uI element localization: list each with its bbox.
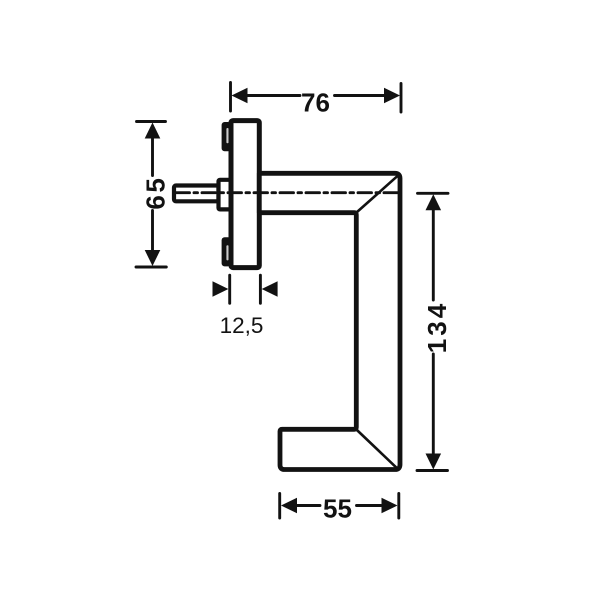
svg-text:65: 65: [141, 176, 171, 210]
svg-text:12,5: 12,5: [220, 313, 264, 338]
svg-text:55: 55: [323, 494, 352, 524]
svg-text:76: 76: [301, 87, 330, 117]
svg-text:134: 134: [422, 301, 452, 353]
